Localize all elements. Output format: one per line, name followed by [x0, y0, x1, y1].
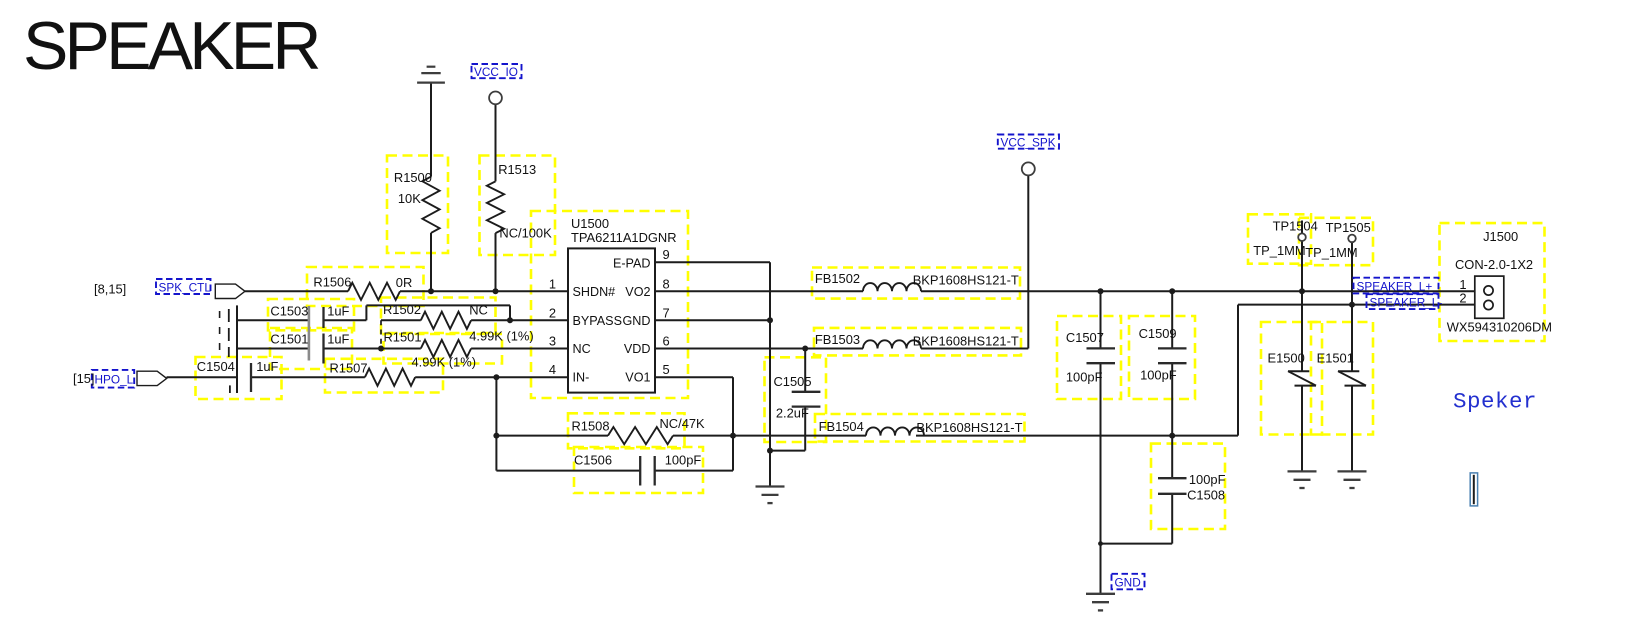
node VCC_SPK [998, 135, 1059, 149]
svg-text:VO1: VO1 [625, 371, 650, 385]
svg-text:R1508: R1508 [572, 419, 610, 434]
capacitor C1501 right plate [322, 334, 324, 364]
node SPEAKER_L- [1367, 294, 1439, 309]
test point TP1504 pin stub [1301, 221, 1303, 235]
ferrite bead FB1503 [863, 340, 921, 348]
wire FB1504 left [733, 435, 866, 437]
resistor R1500 [422, 177, 439, 233]
svg-text:VCC_IO: VCC_IO [474, 65, 518, 79]
wire FB1503 to VCC_SPK [921, 348, 1028, 350]
wire E-PAD pin 9 [655, 261, 770, 263]
wire C1501 left [237, 348, 309, 350]
svg-text:GND: GND [1115, 575, 1141, 589]
port HPO_L arrow [137, 371, 167, 385]
svg-text:10K: 10K [398, 191, 421, 206]
svg-text:C1508: C1508 [1187, 488, 1225, 503]
capacitor C1504 variant dashes [219, 311, 221, 355]
capacitor C1508 plates [1158, 477, 1187, 479]
capacitor C1503 C1501 shared plate [308, 306, 311, 361]
svg-text:1uF: 1uF [327, 303, 349, 318]
connector J1500 pin 1 circle [1484, 286, 1493, 295]
wire C1501 to R1501 [324, 348, 421, 350]
wire IN- feedback vertical [495, 377, 497, 470]
svg-text:100pF: 100pF [665, 453, 702, 468]
svg-text:C1505: C1505 [774, 374, 812, 389]
capacitor C1504 right plate [250, 363, 252, 392]
highlight box ferrite bead FB1502 [812, 268, 1020, 299]
junction ground net corner [1098, 541, 1103, 546]
svg-text:WX594310206DM: WX594310206DM [1447, 319, 1552, 334]
highlight box ESD suppressor E1501 [1311, 322, 1373, 435]
svg-text:VO2: VO2 [625, 285, 650, 299]
svg-text:0R: 0R [396, 275, 412, 290]
svg-text:FB1503: FB1503 [815, 332, 860, 347]
svg-text:NC/100K: NC/100K [499, 226, 552, 241]
svg-text:C1504: C1504 [197, 359, 235, 374]
svg-text:BKP1608HS121-T: BKP1608HS121-T [913, 272, 1019, 287]
svg-text:R1500: R1500 [394, 170, 432, 185]
svg-text:VCC_SPK: VCC_SPK [1001, 135, 1056, 149]
wire E-PAD ground vertical [769, 262, 771, 486]
svg-text:E-PAD: E-PAD [613, 257, 651, 271]
wire GND pin 7 [655, 319, 770, 321]
test point TP1505 [1348, 235, 1356, 243]
svg-text:C1509: C1509 [1139, 326, 1177, 341]
capacitor C1509 plates [1158, 347, 1187, 349]
wire E1500 top lead [1301, 291, 1303, 371]
svg-text:4.99K (1%): 4.99K (1%) [412, 355, 477, 370]
wire bottom ground net [1101, 543, 1173, 545]
svg-text:BKP1608HS121-T: BKP1608HS121-T [913, 333, 1019, 348]
resistor R1508 [608, 427, 673, 444]
connector J1500 pin 2 circle [1484, 300, 1493, 309]
svg-text:TPA6211A1DGNR: TPA6211A1DGNR [571, 230, 677, 245]
wire R1500 bottom to SHDN net [430, 233, 432, 291]
svg-text:2: 2 [549, 305, 556, 320]
svg-text:100pF: 100pF [1066, 370, 1103, 385]
wire C1505 top lead [804, 349, 806, 392]
wire E1500 bottom lead [1301, 386, 1303, 472]
resistor R1506 [348, 283, 400, 300]
resistor R1513 [487, 181, 504, 233]
wire node HPO_L bus vertical [236, 305, 238, 393]
wire SPK_CTL to R1506 [245, 290, 348, 292]
highlight box resistor R1500 [387, 156, 448, 254]
highlight box capacitor C1504 [196, 357, 282, 399]
svg-text:IN-: IN- [573, 371, 590, 385]
wire VDD pin 6 to FB1503 [655, 348, 863, 350]
capacitor C1503 right plate [322, 307, 324, 328]
wire C1506 right [655, 470, 733, 472]
ferrite bead FB1502 [863, 283, 921, 291]
highlight box connector J1500 [1440, 223, 1545, 341]
power node VCC_IO [489, 92, 502, 105]
svg-text:E1500: E1500 [1268, 351, 1305, 366]
wire C1509 top lead [1171, 291, 1173, 348]
resistor R1507 [365, 369, 415, 386]
op-amp U1500 body [568, 248, 655, 392]
highlight box capacitor C1506 [574, 447, 703, 493]
wire C1505 bottom lead [804, 407, 806, 451]
node SPK_CTL [156, 279, 211, 294]
svg-text:TP1505: TP1505 [1326, 220, 1371, 235]
junction R1508 left [493, 433, 499, 439]
junction TP1504/E1500 [1299, 288, 1305, 294]
svg-text:E1501: E1501 [1317, 351, 1354, 366]
svg-text:6: 6 [663, 334, 670, 349]
svg-text:1: 1 [549, 276, 556, 291]
svg-text:NC/47K: NC/47K [660, 416, 706, 431]
ground bottom GND net [1086, 593, 1115, 595]
wire R1502 left lead [381, 319, 421, 321]
wire C1503 right [324, 319, 367, 321]
highlight box op-amp U1500 [531, 211, 688, 398]
wire R1507 to pin 4 IN- [415, 376, 568, 378]
wire VO1 up to SPEAKER_L- [1237, 305, 1239, 436]
wire C1508 top lead [1171, 436, 1173, 479]
wire HPO_L to C1504 [167, 376, 238, 378]
wire C1503 bypass jog up [365, 305, 367, 320]
svg-text:GND: GND [623, 314, 651, 328]
svg-text:2: 2 [1459, 291, 1466, 306]
highlight box resistor R1506 [307, 267, 424, 306]
svg-text:U1500: U1500 [571, 216, 609, 231]
svg-text:9: 9 [663, 247, 670, 262]
junction R1500/SHDN [428, 288, 434, 294]
node GND [1112, 574, 1145, 590]
ground stub above R1500 [427, 66, 436, 68]
resistor R1502 [421, 312, 471, 329]
wire C1508 bottom lead [1171, 494, 1173, 544]
junction TP1505/E1501 [1349, 302, 1355, 308]
svg-text:C1507: C1507 [1066, 330, 1104, 345]
junction IN- node [493, 374, 499, 380]
wire R1500 top to ground stub [430, 83, 432, 177]
svg-text:2.2uF: 2.2uF [776, 406, 809, 421]
highlight box capacitor C1505 [765, 357, 827, 442]
svg-text:R1502: R1502 [383, 302, 421, 317]
ground under E1501 [1338, 470, 1367, 472]
wire C1507 top lead [1100, 291, 1102, 348]
svg-text:Speker: Speker [1453, 389, 1537, 415]
svg-text:FB1504: FB1504 [819, 419, 864, 434]
junction R1502 tie [378, 346, 384, 352]
svg-text:3: 3 [549, 334, 556, 349]
svg-text:C1506: C1506 [574, 453, 612, 468]
highlight box resistor R1513 [480, 156, 556, 256]
highlight box ferrite bead FB1503 [814, 328, 1021, 356]
wire C1506 left [496, 470, 640, 472]
capacitor C1505 plates [792, 391, 821, 393]
wire FB1504 right [916, 435, 1238, 437]
wire TP1504 lead [1301, 241, 1303, 291]
wire C1504 to R1507 [251, 376, 365, 378]
highlight box resistor R1508 [568, 413, 685, 448]
svg-text:1uF: 1uF [327, 332, 349, 347]
power node VCC_SPK [1022, 162, 1035, 175]
highlight box capacitor C1508 [1151, 444, 1225, 529]
junction C1507 top [1098, 288, 1104, 294]
wire R1502 input dashed tie [380, 320, 382, 348]
svg-text:CON-2.0-1X2: CON-2.0-1X2 [1455, 257, 1533, 272]
wire VO1 pin 5 [655, 376, 733, 378]
highlight box resistor R1507 [325, 359, 443, 393]
svg-text:R1507: R1507 [330, 361, 368, 376]
highlight box test point TP1505 [1299, 218, 1373, 265]
svg-text:BYPASS: BYPASS [573, 314, 622, 328]
svg-text:C1501: C1501 [270, 332, 308, 347]
svg-text:[15]: [15] [73, 371, 95, 386]
svg-text:7: 7 [663, 305, 670, 320]
svg-text:[8,15]: [8,15] [94, 281, 126, 296]
capacitor C1506 plates [639, 456, 641, 486]
ESD suppressor E1500 [1288, 370, 1309, 372]
annotation cursor mark [1470, 473, 1477, 506]
ground under E1500 [1288, 470, 1317, 472]
highlight box resistor R1501 [384, 334, 503, 364]
svg-text:4: 4 [549, 362, 556, 377]
ESD suppressor E1501 [1338, 370, 1359, 372]
svg-text:100pF: 100pF [1189, 472, 1226, 487]
svg-text:C1503: C1503 [270, 303, 308, 318]
svg-text:J1500: J1500 [1483, 229, 1518, 244]
wire FB1502 to connector pin 1 [921, 290, 1484, 292]
resistor R1501 [421, 340, 471, 357]
wire R1506 to pin 1 SHDN# [400, 290, 568, 292]
node SPEAKER_L+ [1354, 278, 1439, 294]
highlight box resistor R1502 [381, 298, 496, 334]
wire VCC_SPK vertical [1027, 176, 1029, 349]
svg-text:TP_1MM: TP_1MM [1253, 243, 1305, 258]
ground at E-PAD [756, 485, 785, 487]
junction C1505 top [802, 346, 808, 352]
ferrite bead FB1504 [866, 427, 924, 435]
highlight box capacitor C1503 [268, 299, 354, 330]
svg-text:R1506: R1506 [313, 275, 351, 290]
wire E1501 bottom lead [1351, 386, 1353, 472]
svg-text:4.99K (1%): 4.99K (1%) [469, 329, 534, 344]
highlight box capacitor C1507 [1057, 316, 1121, 399]
wire R1513 bottom to SHDN net [495, 233, 497, 291]
wire ground drop [1100, 544, 1102, 594]
wire TP1505 lead [1351, 242, 1353, 304]
svg-text:100pF: 100pF [1140, 368, 1177, 383]
svg-text:8: 8 [663, 276, 670, 291]
svg-text:SPEAKER_L+: SPEAKER_L+ [1357, 279, 1433, 293]
highlight box capacitor C1501 [270, 328, 352, 369]
node VCC_IO [472, 64, 522, 78]
svg-text:NC: NC [469, 302, 488, 317]
test point TP1504 [1298, 233, 1306, 241]
wire R1502 right to pin 2 BYPASS [471, 319, 568, 321]
wire R1508 right lead [673, 435, 733, 437]
svg-text:SPK_CTL: SPK_CTL [159, 280, 212, 294]
svg-text:TP_1MM: TP_1MM [1305, 245, 1357, 260]
node HPO_L [92, 370, 134, 388]
wire R1508 left lead [496, 435, 608, 437]
highlight box test point TP1504 [1248, 214, 1311, 263]
wire VO2 pin 8 to FB1502 [655, 290, 863, 292]
capacitor C1507 plates [1087, 347, 1116, 349]
svg-text:TP1504: TP1504 [1273, 218, 1318, 233]
svg-text:R1513: R1513 [498, 162, 536, 177]
svg-text:5: 5 [663, 362, 670, 377]
junction R1508 right [730, 433, 736, 439]
wire SPEAKER_L- to connector pin 2 [1238, 304, 1484, 306]
svg-text:VDD: VDD [624, 342, 651, 356]
junction bypass jog [507, 317, 513, 323]
svg-text:BKP1608HS121-T: BKP1608HS121-T [916, 420, 1022, 435]
wire R1501 to pin 3 NC [471, 348, 568, 350]
highlight box ESD suppressor E1500 [1261, 322, 1322, 435]
svg-text:R1501: R1501 [384, 330, 422, 345]
wire VO1 down to feedback node [732, 377, 734, 470]
junction C1509 bottom [1169, 433, 1175, 439]
svg-text:FB1502: FB1502 [815, 271, 860, 286]
svg-text:SPEAKER_L-: SPEAKER_L- [1370, 295, 1443, 309]
svg-text:SHDN#: SHDN# [573, 285, 616, 299]
svg-text:HPO_L: HPO_L [95, 373, 134, 387]
wire C1503 left [237, 319, 309, 321]
svg-text:SPEAKER: SPEAKER [23, 8, 318, 84]
connector J1500 body [1475, 276, 1504, 318]
junction C1509 top [1169, 288, 1175, 294]
wire VCC_IO to R1513 [495, 104, 497, 181]
wire C1509 bottom lead [1171, 363, 1173, 435]
port SPK_CTL arrow [215, 284, 245, 298]
wire C1507 bottom lead [1100, 363, 1102, 543]
highlight box capacitor C1509 [1129, 316, 1195, 399]
svg-text:1uF: 1uF [256, 359, 278, 374]
junction R1513/SHDN [493, 288, 499, 294]
wire E1501 top lead [1351, 305, 1353, 372]
highlight box ferrite bead FB1504 [815, 414, 1025, 442]
junction GND pin7 [767, 317, 773, 323]
junction C1505 bottom [767, 448, 773, 454]
svg-text:NC: NC [573, 342, 591, 356]
